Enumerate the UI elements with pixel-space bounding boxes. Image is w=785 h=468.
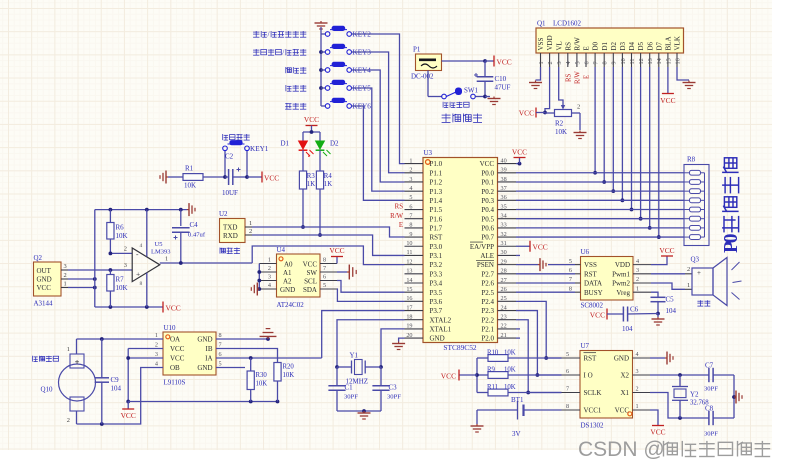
svg-text:5: 5 xyxy=(566,351,569,358)
svg-text:7: 7 xyxy=(323,265,326,272)
svg-text:VCC: VCC xyxy=(480,160,495,168)
svg-text:R7: R7 xyxy=(116,276,125,284)
capacitor C5 xyxy=(651,296,677,316)
svg-text:EA/VPP: EA/VPP xyxy=(470,243,494,251)
wire P0.1 to pull-up xyxy=(516,181,684,183)
svg-text:15: 15 xyxy=(665,58,672,64)
svg-text:P1.1: P1.1 xyxy=(430,169,443,177)
wire KEY4 to MCU xyxy=(352,70,405,182)
svg-text:14: 14 xyxy=(656,58,663,64)
U7 pin stubs xyxy=(562,351,651,410)
svg-text:7: 7 xyxy=(219,342,222,349)
svg-text:SC8002: SC8002 xyxy=(581,302,604,310)
svg-text:1K: 1K xyxy=(307,181,315,188)
svg-text:C10: C10 xyxy=(495,75,507,83)
resistor R1 xyxy=(168,165,203,190)
svg-text:C7: C7 xyxy=(705,362,714,370)
svg-text:OUT: OUT xyxy=(37,267,52,275)
svg-text:D3: D3 xyxy=(619,41,627,50)
svg-text:R/W: R/W xyxy=(575,71,582,84)
label reset key xyxy=(223,134,250,140)
label power port xyxy=(442,114,482,123)
resistor R3 xyxy=(299,150,315,189)
wire PSEN to ground xyxy=(516,264,538,266)
svg-text:27: 27 xyxy=(501,277,507,284)
svg-text:8: 8 xyxy=(602,61,609,64)
wire R4 down to RXD net xyxy=(318,189,322,237)
wire U4 address pins common xyxy=(257,264,261,291)
svg-text:10K: 10K xyxy=(184,182,196,190)
svg-text:1K: 1K xyxy=(324,181,332,188)
svg-text:GND: GND xyxy=(280,286,295,294)
label speaker xyxy=(697,300,710,306)
svg-text:2: 2 xyxy=(64,272,67,279)
svg-text:30PF: 30PF xyxy=(704,386,718,393)
wire P0.6 to pull-up xyxy=(516,227,684,229)
label STC89C52 xyxy=(443,343,477,352)
svg-text:R9: R9 xyxy=(487,367,496,374)
wire Pwm1 to speaker xyxy=(651,273,685,275)
svg-text:Pwm1: Pwm1 xyxy=(612,270,630,278)
svg-text:C8: C8 xyxy=(705,405,714,413)
svg-text:D2: D2 xyxy=(330,140,339,148)
rtc U7 DS1302 xyxy=(580,342,633,430)
svg-text:VCC: VCC xyxy=(166,304,181,313)
resistor R30 xyxy=(247,358,267,402)
ground BT1 xyxy=(471,424,484,432)
svg-text:P1.7: P1.7 xyxy=(430,224,443,232)
svg-text:26: 26 xyxy=(501,286,507,293)
connector P1 DC-002 xyxy=(411,46,442,81)
wire OB to motor - xyxy=(77,368,164,426)
net label R/W P1.6 xyxy=(390,213,403,220)
svg-text:4: 4 xyxy=(565,61,572,64)
svg-text:7: 7 xyxy=(569,276,572,283)
op-amp U5 LM393 xyxy=(124,210,171,307)
ground U6 output xyxy=(652,314,665,326)
svg-text:RS: RS xyxy=(564,42,572,51)
wire Q2 OUT to comparator + xyxy=(68,268,132,272)
capacitor C10 xyxy=(474,61,511,97)
label key function KEY3 xyxy=(253,48,306,57)
wire U10 GND pin8 xyxy=(216,337,270,341)
svg-text:5: 5 xyxy=(323,282,326,289)
capacitor C6 xyxy=(590,306,658,334)
svg-text:+: + xyxy=(75,357,80,367)
power VCC U7 pin1 xyxy=(650,410,666,437)
wire IB to R20 xyxy=(216,349,278,363)
svg-text:RST: RST xyxy=(584,355,598,363)
wire XTAL2 to Y1 xyxy=(335,320,404,369)
svg-text:1: 1 xyxy=(165,256,168,263)
svg-text:10K: 10K xyxy=(504,350,516,357)
wire led split xyxy=(303,130,320,141)
amplifier U6 SC8002 xyxy=(581,248,634,310)
svg-text:104: 104 xyxy=(111,385,122,393)
wire P2 row to U6 pin8 xyxy=(516,291,575,293)
svg-text:1: 1 xyxy=(409,157,412,164)
svg-text:E: E xyxy=(584,75,591,79)
U10 pin stubs xyxy=(155,332,222,368)
svg-text:P3.0: P3.0 xyxy=(430,243,443,251)
svg-text:8: 8 xyxy=(323,257,326,264)
svg-text:10K: 10K xyxy=(116,284,128,292)
svg-text:C5: C5 xyxy=(666,296,675,304)
pushbutton KEY6 xyxy=(321,98,371,111)
svg-text:1: 1 xyxy=(268,257,271,264)
crystal Y1 xyxy=(337,352,381,386)
net label E LCD xyxy=(584,75,591,79)
svg-text:SW1: SW1 xyxy=(464,87,479,95)
svg-text:32: 32 xyxy=(501,231,507,238)
svg-text:D5: D5 xyxy=(637,41,645,50)
svg-text:IA: IA xyxy=(205,355,212,363)
svg-text:3: 3 xyxy=(155,351,158,358)
svg-text:U5: U5 xyxy=(155,241,163,248)
svg-text:D7: D7 xyxy=(655,41,663,50)
svg-text:4: 4 xyxy=(155,361,158,368)
svg-text:6: 6 xyxy=(569,267,572,274)
net label RS LCD xyxy=(565,73,572,82)
wire P0.2 to pull-up xyxy=(516,190,684,192)
svg-text:P1.5: P1.5 xyxy=(430,206,443,214)
svg-text:E: E xyxy=(399,222,403,229)
svg-text:VCC: VCC xyxy=(650,428,665,437)
led D1 xyxy=(280,140,313,157)
svg-text:RXD: RXD xyxy=(223,232,238,240)
wire RXD to MCU P3.1 xyxy=(252,235,405,255)
svg-text:R11: R11 xyxy=(487,384,498,391)
svg-text:17: 17 xyxy=(406,304,412,311)
svg-text:5: 5 xyxy=(219,361,222,368)
svg-text:DS1302: DS1302 xyxy=(581,422,604,430)
svg-text:P1.3: P1.3 xyxy=(430,188,443,196)
svg-text:P2.4: P2.4 xyxy=(481,298,494,306)
speaker Q3 xyxy=(685,256,742,306)
svg-text:VCC: VCC xyxy=(170,345,185,353)
wire bottom VCC rail xyxy=(128,400,279,404)
svg-text:VCC1: VCC1 xyxy=(584,407,602,415)
label download port xyxy=(220,248,240,254)
wire LCD D1 to P0 bus xyxy=(602,67,606,184)
svg-text:1: 1 xyxy=(67,346,70,353)
svg-text:Q2: Q2 xyxy=(34,254,43,262)
svg-text:VLK: VLK xyxy=(674,36,682,50)
svg-text:Q1: Q1 xyxy=(537,20,546,28)
motor driver U10 L9110S xyxy=(163,324,216,387)
label key function KEY6 xyxy=(285,103,306,109)
svg-text:VDD: VDD xyxy=(615,261,630,269)
hall sensor Q2 A3144 xyxy=(34,254,69,308)
wire U4 SDA to MCU P3.5 xyxy=(337,289,405,301)
svg-text:37: 37 xyxy=(501,185,507,192)
svg-text:C1: C1 xyxy=(345,384,354,392)
svg-text:13: 13 xyxy=(647,58,654,64)
capacitor C3 xyxy=(372,367,401,411)
svg-text:OB: OB xyxy=(170,364,180,372)
wire LCD VL to pot wiper xyxy=(559,67,566,110)
svg-text:CSDN @: CSDN @ xyxy=(578,438,665,461)
wire left rail vertical xyxy=(94,210,96,307)
ground top rail xyxy=(187,203,195,216)
svg-text:AT24C02: AT24C02 xyxy=(277,301,305,309)
svg-text:33: 33 xyxy=(501,222,507,229)
resistor R20 xyxy=(274,363,295,402)
capacitor C9 xyxy=(95,339,122,424)
wire P0.0 to pull-up xyxy=(516,172,684,174)
ground U4 xyxy=(251,283,259,296)
svg-text:104: 104 xyxy=(666,307,677,315)
svg-text:P0.2: P0.2 xyxy=(481,188,494,196)
svg-text:R1: R1 xyxy=(185,165,194,173)
svg-text:10K: 10K xyxy=(116,232,128,240)
power VCC comparator rail xyxy=(163,302,181,313)
wire XTAL1 to Y1 xyxy=(379,329,404,369)
svg-text:2: 2 xyxy=(124,246,127,253)
svg-text:R/W: R/W xyxy=(390,213,403,220)
svg-text:Q3: Q3 xyxy=(691,256,700,264)
svg-text:A1: A1 xyxy=(283,269,292,277)
ground U4 SW xyxy=(347,265,356,280)
svg-text:VCC: VCC xyxy=(170,355,185,363)
svg-text:R3: R3 xyxy=(307,173,316,180)
svg-text:16: 16 xyxy=(406,295,412,302)
svg-text:P0.1: P0.1 xyxy=(481,179,494,187)
svg-text:+: + xyxy=(136,269,140,278)
svg-text:31: 31 xyxy=(501,240,507,247)
svg-text:4: 4 xyxy=(268,282,271,289)
svg-text:A3144: A3144 xyxy=(34,300,54,308)
wire ALE stub xyxy=(516,254,520,256)
svg-text:1: 1 xyxy=(64,280,67,287)
svg-text:4: 4 xyxy=(636,351,639,358)
svg-text:VCC: VCC xyxy=(264,174,279,183)
svg-text:4: 4 xyxy=(636,258,639,265)
label SW1 type xyxy=(443,102,469,108)
svg-text:R20: R20 xyxy=(283,364,295,371)
power VCC motor driver xyxy=(121,402,136,421)
svg-text:LCD1602: LCD1602 xyxy=(553,20,582,28)
wire LCD D6 to P0 bus xyxy=(648,67,652,230)
wire P0.4 to pull-up xyxy=(516,209,684,211)
svg-text:GND: GND xyxy=(37,275,52,283)
svg-text:3: 3 xyxy=(409,176,412,183)
capacitor C4 xyxy=(172,210,206,263)
svg-text:P2.1: P2.1 xyxy=(481,326,494,334)
svg-text:2: 2 xyxy=(636,276,639,283)
wire R2 to ground xyxy=(579,113,581,130)
svg-text:KEY1: KEY1 xyxy=(250,145,269,153)
svg-text:VCC: VCC xyxy=(660,96,675,105)
svg-text:VCC: VCC xyxy=(497,58,512,67)
wire P2.4 to DS1302 RST net xyxy=(516,301,562,360)
LCD pin stubs and numbers xyxy=(538,53,682,67)
svg-text:2: 2 xyxy=(268,265,271,272)
wire P0.3 to pull-up xyxy=(516,199,684,201)
label key function KEY2 xyxy=(253,30,306,39)
wire LCD VLK to ground xyxy=(677,67,689,80)
wire top rail xyxy=(95,208,187,212)
svg-text:3: 3 xyxy=(556,61,563,64)
svg-text:Y1: Y1 xyxy=(350,352,359,360)
wire Vreg to C5 xyxy=(651,292,658,297)
wire KEY3 to MCU xyxy=(352,52,405,173)
svg-text:8: 8 xyxy=(219,332,222,339)
svg-text:D0: D0 xyxy=(592,41,600,50)
power VCC U6 VDD xyxy=(651,246,675,265)
wire MCU GND pin20 xyxy=(399,338,405,341)
wire TXD to MCU RST row xyxy=(252,227,405,237)
svg-text:25: 25 xyxy=(501,295,507,302)
svg-text:2: 2 xyxy=(67,417,70,424)
wire KEY5 to MCU xyxy=(352,88,405,191)
svg-text:PSEN: PSEN xyxy=(477,261,494,269)
svg-text:6: 6 xyxy=(219,351,222,358)
svg-text:RST: RST xyxy=(430,234,444,242)
wire P2 row to U6 pin6 xyxy=(516,273,575,275)
svg-text:1: 1 xyxy=(155,332,158,339)
wire BT1 to ground xyxy=(476,410,478,424)
eeprom U4 AT24C02 xyxy=(277,246,321,309)
svg-text:P2.5: P2.5 xyxy=(481,289,494,297)
svg-text:XTAL1: XTAL1 xyxy=(430,326,452,334)
svg-text:R4: R4 xyxy=(324,173,333,180)
svg-text:23: 23 xyxy=(501,314,507,321)
ground keys bus xyxy=(315,21,328,34)
svg-text:28: 28 xyxy=(501,268,507,275)
svg-text:8: 8 xyxy=(140,281,143,287)
wire bottom rail xyxy=(95,305,163,309)
power VCC supply xyxy=(485,56,512,67)
svg-text:5: 5 xyxy=(569,258,572,265)
svg-text:STC89C52: STC89C52 xyxy=(443,343,477,352)
resistor R6 xyxy=(107,210,128,254)
wire comparator minus input xyxy=(109,246,133,256)
svg-text:11: 11 xyxy=(407,249,413,256)
svg-text:VCC: VCC xyxy=(519,109,534,118)
svg-text:A0: A0 xyxy=(284,260,293,268)
power VCC EA/VPP xyxy=(516,241,548,252)
ground MCU xyxy=(392,342,405,350)
svg-text:VCC: VCC xyxy=(615,407,630,415)
wire P0.7 to pull-up xyxy=(516,236,684,238)
svg-text:VCC: VCC xyxy=(659,246,674,255)
svg-text:3: 3 xyxy=(64,263,67,270)
microcontroller U3 STC89C52 xyxy=(423,149,498,343)
svg-text:P1: P1 xyxy=(413,46,421,54)
wire P2.2 to DS1302 SCLK net xyxy=(516,320,562,395)
svg-text:R2: R2 xyxy=(555,120,564,128)
svg-text:5: 5 xyxy=(409,194,412,201)
pushbutton KEY3 xyxy=(321,44,371,57)
wire VCC pins to rail xyxy=(126,349,163,404)
svg-text:GND: GND xyxy=(430,335,445,343)
svg-text:19: 19 xyxy=(406,323,412,330)
ground U10 xyxy=(260,329,277,339)
switch SW1 xyxy=(428,71,487,99)
dc motor Q10 xyxy=(33,339,96,424)
svg-text:SCL: SCL xyxy=(304,277,317,285)
svg-text:P2.0: P2.0 xyxy=(481,335,494,343)
wire P1 to VCC node xyxy=(442,59,487,63)
net label R/W LCD xyxy=(575,71,582,84)
svg-text:VDD: VDD xyxy=(546,35,554,50)
svg-text:35: 35 xyxy=(501,203,507,210)
svg-text:-: - xyxy=(136,250,139,259)
label key function KEY5 xyxy=(286,85,306,91)
svg-text:BUSY: BUSY xyxy=(584,289,603,297)
svg-text:E: E xyxy=(583,46,591,50)
power VCC reset xyxy=(247,172,279,183)
svg-text:VCC: VCC xyxy=(37,284,52,292)
svg-text:P0.6: P0.6 xyxy=(481,224,494,232)
wire LCD D2 to P0 bus xyxy=(611,67,615,193)
svg-text:36: 36 xyxy=(501,194,507,201)
svg-text:L9110S: L9110S xyxy=(164,379,186,387)
svg-text:VCC: VCC xyxy=(590,311,605,320)
svg-text:C6: C6 xyxy=(630,306,639,314)
wire KEY2 to MCU xyxy=(352,34,405,164)
svg-text:0: 0 xyxy=(721,233,742,243)
pushbutton KEY1 (reset) xyxy=(223,140,269,177)
svg-text:X2: X2 xyxy=(620,372,629,380)
svg-text:P0.4: P0.4 xyxy=(481,206,494,214)
wire X1 node xyxy=(650,393,709,420)
wire key bus xyxy=(319,34,323,106)
svg-text:BLA: BLA xyxy=(665,37,673,51)
svg-text:GND: GND xyxy=(614,355,629,363)
watermark CSDN xyxy=(578,438,770,461)
svg-text:R/W: R/W xyxy=(574,37,582,51)
resistor R11 xyxy=(477,384,562,396)
resistor R7 xyxy=(107,270,128,307)
ground supply xyxy=(485,97,501,105)
svg-text:U3: U3 xyxy=(424,149,433,157)
svg-text:34: 34 xyxy=(501,213,507,220)
svg-text:12: 12 xyxy=(638,58,645,64)
wire P2 row to U6 pin7 xyxy=(516,282,575,284)
svg-text:5: 5 xyxy=(574,61,581,64)
wire crystal caps common xyxy=(732,375,736,418)
LCD module Q1 LCD1602 xyxy=(536,20,684,54)
resistor R4 xyxy=(316,150,332,189)
svg-text:0.47uf: 0.47uf xyxy=(188,232,206,239)
svg-text:R30: R30 xyxy=(256,372,268,379)
svg-text:C3: C3 xyxy=(389,384,398,392)
svg-text:U2: U2 xyxy=(219,210,228,218)
svg-text:D1: D1 xyxy=(280,140,289,148)
pushbutton KEY5 xyxy=(321,80,371,93)
svg-text:P3.4: P3.4 xyxy=(430,280,443,288)
svg-text:P2.3: P2.3 xyxy=(481,307,494,315)
svg-text:/: / xyxy=(282,48,285,57)
ground R2 xyxy=(574,131,587,139)
svg-text:10K: 10K xyxy=(504,384,516,391)
svg-text:6: 6 xyxy=(583,61,590,64)
svg-text:10: 10 xyxy=(406,240,412,247)
wire Q2 VCC to left rail xyxy=(68,286,97,290)
wire LCD D0 to P0 bus xyxy=(593,67,597,175)
svg-text:P3.7: P3.7 xyxy=(430,307,443,315)
svg-text:2: 2 xyxy=(577,104,580,111)
svg-text:2: 2 xyxy=(547,61,554,64)
svg-text:10K: 10K xyxy=(283,372,295,379)
ground R1 xyxy=(160,171,168,184)
U6 pin stubs xyxy=(569,258,651,293)
wire R3 down to TXD net xyxy=(301,189,305,229)
svg-text:7: 7 xyxy=(593,61,600,64)
resistor R9 xyxy=(477,367,562,379)
